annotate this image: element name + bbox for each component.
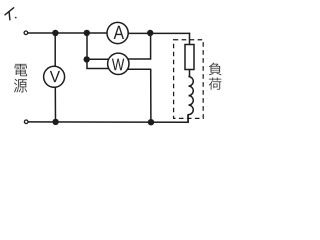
node junction dot: bottom wire / voltmeter	[52, 119, 58, 125]
wire wattmeter right upper riser to node C	[150, 33, 152, 59]
node junction dot: top wire to voltmeter branch	[52, 30, 58, 36]
text label 電 (of 電源 power source)	[15, 64, 27, 76]
wire wattmeter right upper terminal	[128, 58, 151, 60]
wire load bottom riser	[187, 114, 189, 123]
wattmeter U2 circle	[108, 53, 129, 74]
text label period after イ	[15, 17, 17, 18]
text label 源 (of 電源 power source)	[14, 79, 27, 93]
node junction dot: bottom wire / wattmeter drop	[148, 119, 154, 125]
voltmeter label V	[50, 71, 60, 82]
wire wattmeter left lower terminal	[86, 68, 109, 70]
node junction dot C: top wire / wattmeter right upper	[147, 30, 153, 36]
text label 荷 (of 負荷 load)	[209, 77, 222, 89]
wattmeter label W	[112, 59, 124, 71]
wire wattmeter right lower terminal	[128, 68, 151, 70]
wire wattmeter left upper terminal	[87, 58, 109, 60]
terminal source - (open circle)	[24, 120, 28, 124]
wire bottom main	[28, 121, 188, 123]
load dashed enclosure box	[174, 40, 204, 119]
wire voltmeter branch lower	[54, 88, 56, 123]
voltmeter U3 circle	[44, 66, 65, 87]
wire wattmeter left jog down	[86, 60, 88, 69]
wire node C to load box	[151, 32, 191, 34]
wire wattmeter right lower drop to bottom wire	[150, 69, 152, 123]
wire resistor to inductor	[189, 70, 191, 77]
text label イ (answer marker)	[5, 8, 14, 20]
node junction dot: wattmeter left terminals	[84, 56, 90, 62]
wire voltmeter branch upper	[54, 33, 56, 67]
text label 負 (of 負荷 load)	[209, 63, 222, 76]
ammeter U1 circle	[107, 22, 128, 43]
wire top main (source + to ammeter)	[28, 32, 107, 34]
wire ammeter to node C	[128, 32, 150, 34]
ammeter label A	[114, 26, 124, 39]
wire wattmeter left branch vertical	[86, 33, 88, 60]
inductor L (load coil)	[188, 75, 193, 122]
resistor R (load) rectangle	[185, 45, 194, 70]
wire down into load (to resistor top)	[189, 33, 191, 45]
node junction dot: top wire to wattmeter left branch	[84, 30, 90, 36]
terminal source + (open circle)	[24, 31, 28, 35]
